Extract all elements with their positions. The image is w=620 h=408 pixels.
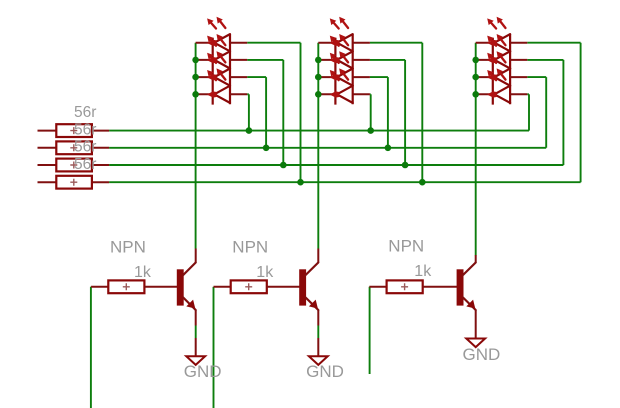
svg-text:NPN: NPN [110, 238, 146, 257]
svg-text:56r: 56r [74, 104, 96, 121]
svg-text:56r: 56r [74, 156, 96, 173]
svg-text:56r: 56r [74, 121, 96, 138]
svg-text:NPN: NPN [232, 238, 268, 257]
svg-text:56r: 56r [74, 139, 96, 156]
svg-text:GND: GND [306, 362, 344, 381]
svg-text:GND: GND [184, 362, 222, 381]
svg-text:1k: 1k [134, 264, 152, 281]
svg-text:GND: GND [463, 345, 501, 364]
svg-text:1k: 1k [414, 263, 432, 280]
svg-text:NPN: NPN [388, 237, 424, 256]
svg-text:1k: 1k [256, 264, 274, 281]
